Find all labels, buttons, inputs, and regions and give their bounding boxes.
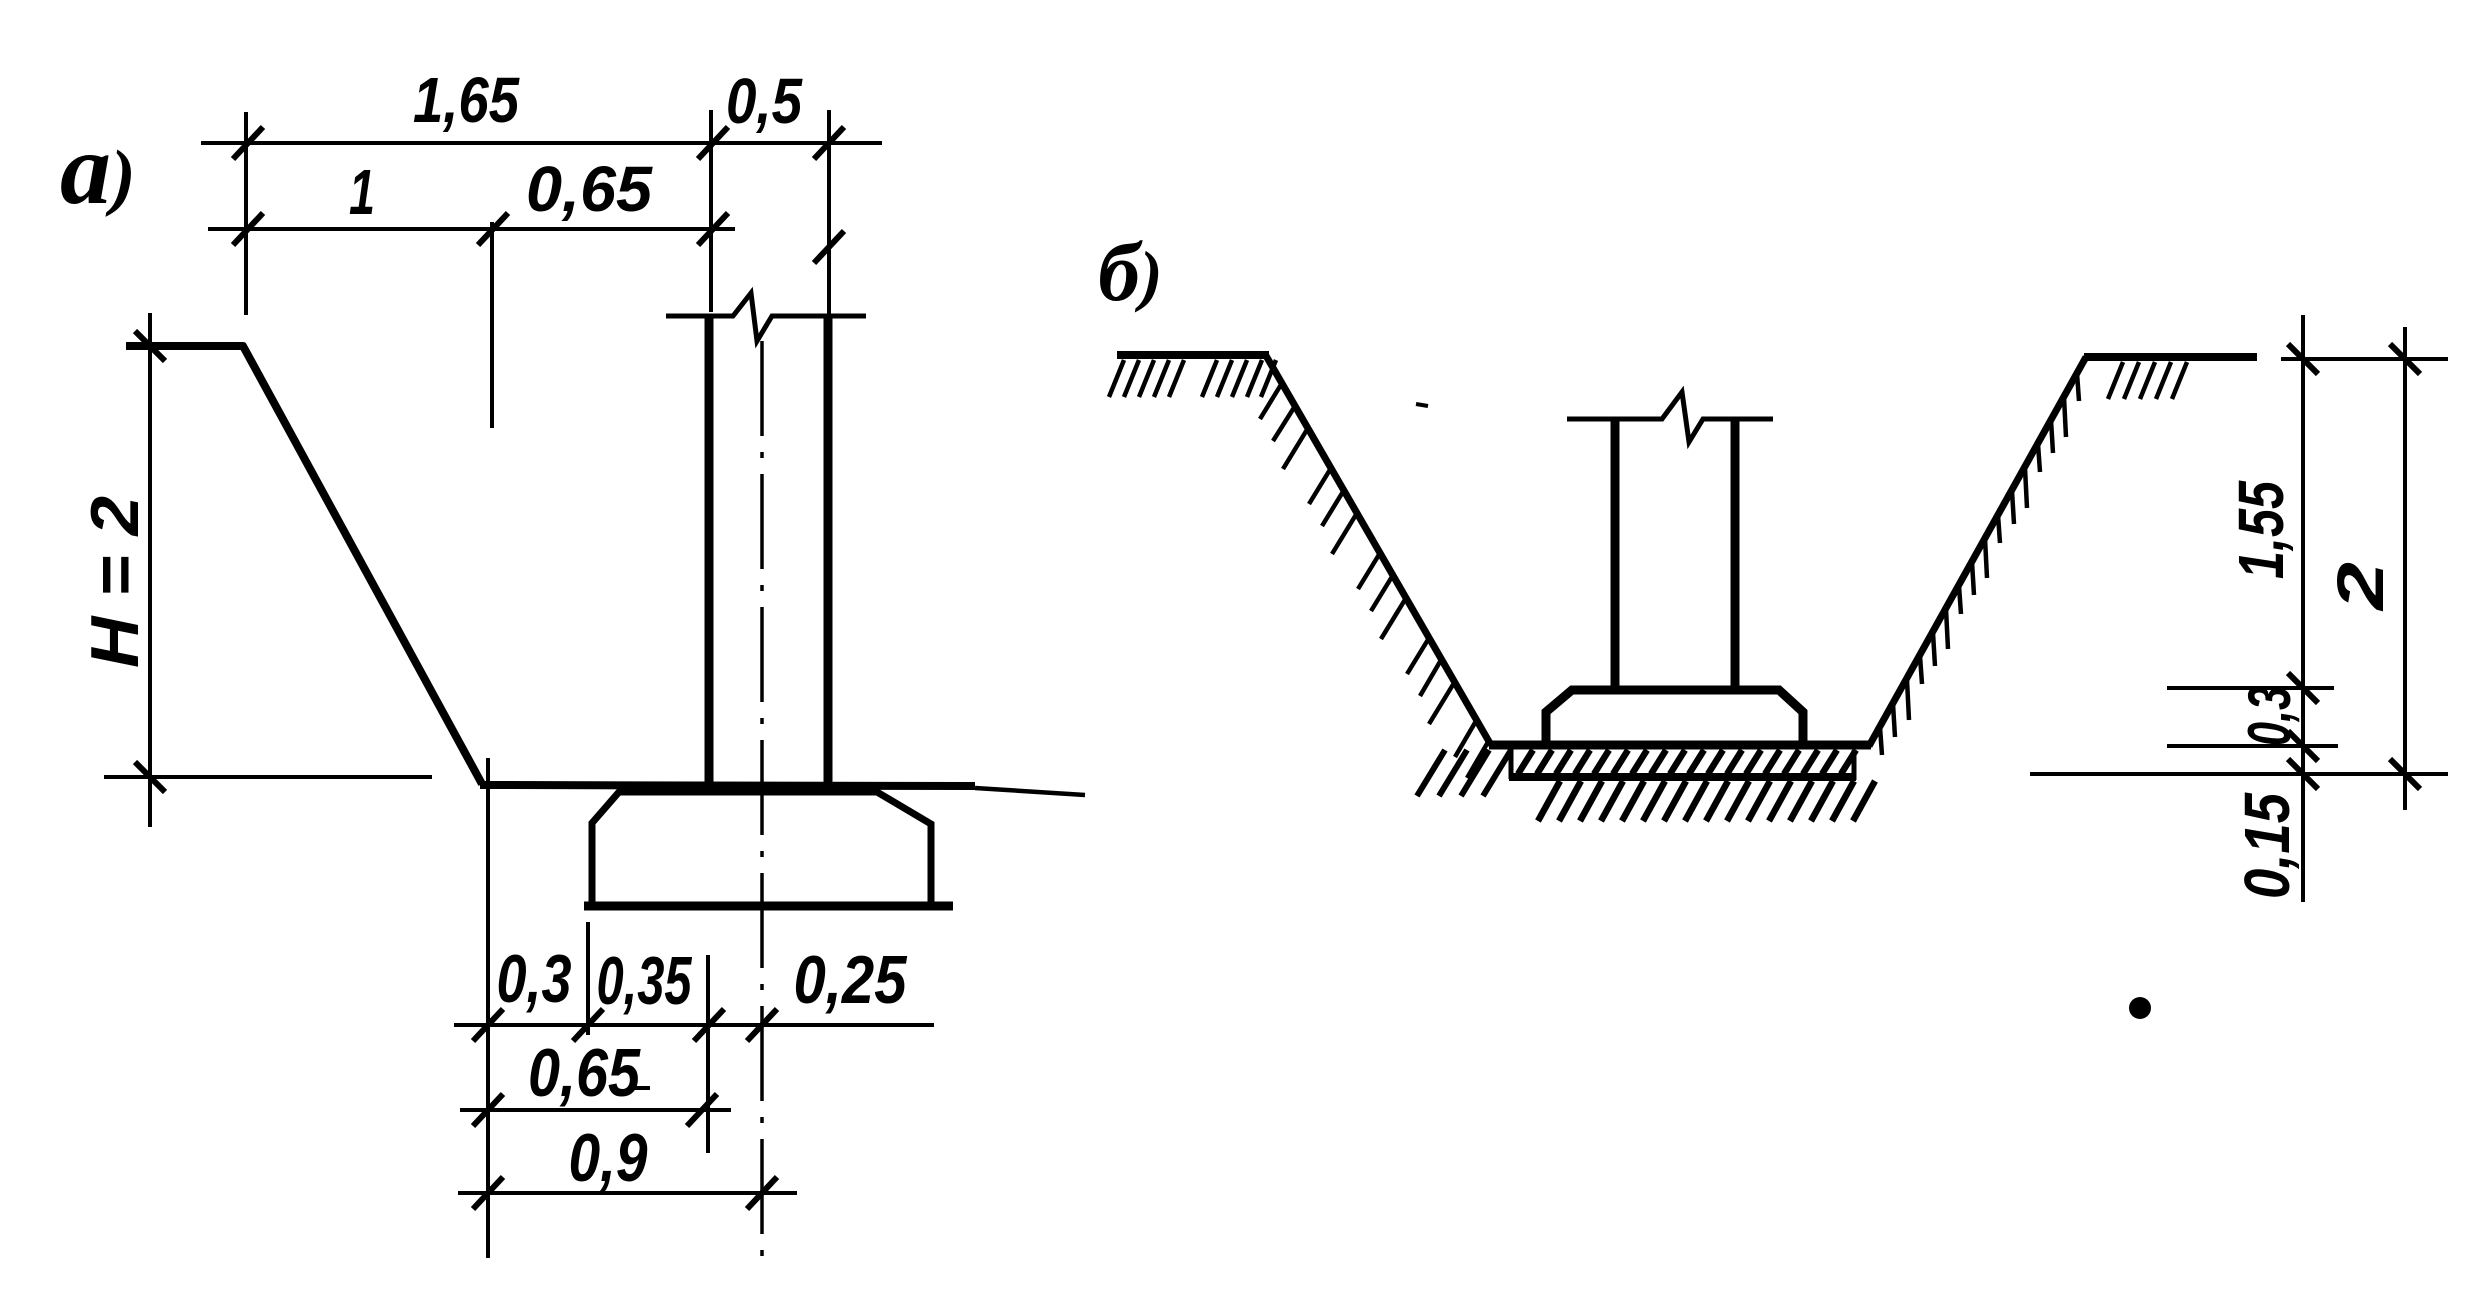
- hatching bedding layer (dense) b): [1518, 750, 1856, 774]
- extension line ground level right b): [2281, 357, 2448, 361]
- svg-text:2: 2: [2323, 562, 2397, 613]
- ground surface right b): [2084, 353, 2257, 361]
- svg-text:0,3: 0,3: [2236, 686, 2303, 746]
- svg-text:0,5: 0,5: [726, 65, 803, 137]
- extension line left (trench top corner): [244, 112, 248, 315]
- svg-text:б): б): [1098, 226, 1163, 319]
- column left face a): [705, 318, 714, 789]
- tick 0,65 left: [473, 1094, 503, 1126]
- hatching soil below bedding b): [1538, 781, 1875, 821]
- tick 0,9 left: [473, 1177, 503, 1209]
- svg-text:1: 1: [349, 156, 375, 228]
- hatching left slope b): [1260, 383, 1488, 778]
- bedding layer left edge: [1509, 748, 1514, 779]
- right slope b): [1869, 357, 2086, 746]
- trench bottom line a): [480, 785, 975, 786]
- column break line b): [1567, 392, 1773, 442]
- bedding layer right edge: [1852, 750, 1857, 780]
- tick at left end of 1: [233, 213, 263, 245]
- tick 0,3 left: [473, 1009, 503, 1041]
- tick at right end of 0,5: [814, 127, 844, 159]
- tick 0,3/0,35 boundary: [573, 1009, 603, 1041]
- dimension line 0,65 (bottom): [460, 1108, 731, 1112]
- tick at trench bottom level H: [135, 762, 165, 792]
- svg-text:0,35: 0,35: [597, 943, 693, 1019]
- tick bottom of 2: [2390, 759, 2420, 789]
- tick ground level: [2288, 344, 2318, 374]
- bedding layer bottom edge b): [1509, 773, 1856, 781]
- ground surface left b): [1117, 351, 1269, 359]
- tick between 1 and 0,65: [478, 213, 508, 245]
- tick at left end of 1,65: [233, 127, 263, 159]
- tick top of 2: [2390, 344, 2420, 374]
- hatching soil below trench bottom left of bedding b): [1417, 750, 1511, 796]
- column break line a): [666, 293, 866, 341]
- dimension line 1,65 / 0,5 (top): [201, 141, 882, 145]
- svg-text:1,65: 1,65: [413, 64, 520, 136]
- precast foundation footing a): [592, 792, 931, 905]
- left slope b): [1265, 354, 1491, 745]
- extension line column left face: [709, 110, 713, 312]
- svg-text:0,15: 0,15: [2231, 792, 2303, 899]
- tick at right end of 0,65: [698, 213, 728, 245]
- tick trench bottom level: [2288, 731, 2318, 761]
- column centerline a) (dash-dot): [760, 341, 764, 1262]
- svg-text:0,9: 0,9: [569, 1120, 648, 1196]
- underscore artifact after 0,65: [634, 1086, 650, 1090]
- extension line below foundation left edge: [586, 922, 590, 1035]
- dimension line 0,3 / 0,35 / 0,25: [454, 1023, 934, 1027]
- tick 0,9 right: [747, 1177, 777, 1209]
- stray ink dot artifact: [2129, 997, 2151, 1019]
- extension line middle (slope foot projection): [490, 222, 494, 428]
- trench bottom continuation right: [975, 788, 1085, 795]
- tick between 1,65 and 0,5: [698, 127, 728, 159]
- tick footing top level: [2288, 673, 2318, 703]
- ground surface left of trench a): [126, 346, 482, 784]
- hatching right slope b): [1880, 373, 2079, 755]
- stray short dash artifact: [1416, 404, 1428, 406]
- column left face b): [1611, 421, 1620, 688]
- tick at ground level H: [135, 331, 165, 361]
- column right face b): [1731, 421, 1740, 688]
- extension line trench bottom level b): [2167, 744, 2338, 748]
- vertical dimension line 1,55 / 0,3 / 0,15: [2301, 315, 2305, 902]
- dimension line 1 / 0,65 (second): [208, 227, 735, 231]
- svg-text:0,65: 0,65: [528, 1035, 641, 1111]
- trench bottom / footing bottom / bedding top b): [1489, 741, 1871, 750]
- foundation bottom edge a): [584, 902, 953, 911]
- extension line column right face: [827, 110, 831, 316]
- stray tick on right extension line: [814, 231, 844, 263]
- hatching ground surface left b): [1109, 360, 1276, 397]
- extension line footing top level b): [2167, 686, 2334, 690]
- tick at centerline 0,25: [747, 1009, 777, 1041]
- tick bedding bottom level: [2288, 759, 2318, 789]
- svg-text:H = 2: H = 2: [77, 496, 153, 668]
- svg-text:1,55: 1,55: [2225, 480, 2297, 579]
- hatching ground surface right b): [2108, 362, 2187, 399]
- vertical dimension line 2 (overall): [2403, 327, 2407, 810]
- tick 0,65 right: [687, 1094, 717, 1126]
- trench bottom level extension line (left): [104, 775, 432, 779]
- H=2 dimension line: [148, 313, 152, 827]
- tick 0,35 right: [694, 1009, 724, 1041]
- svg-text:0,25: 0,25: [794, 942, 908, 1018]
- extension line below slope foot: [486, 758, 490, 1258]
- column right face a): [824, 318, 833, 789]
- extension line below column left face: [706, 955, 710, 1153]
- svg-text:0,65: 0,65: [526, 153, 653, 225]
- extension line bedding bottom level b): [2030, 772, 2448, 776]
- foundation footing b): [1546, 690, 1803, 745]
- dimension line 0,9: [458, 1191, 797, 1195]
- svg-text:0,3: 0,3: [497, 941, 572, 1017]
